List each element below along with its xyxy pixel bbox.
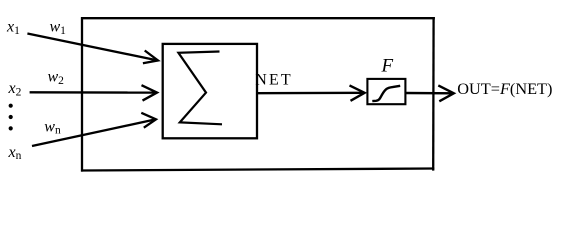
sigmoid curve <box>372 86 400 101</box>
svg-text:F: F <box>381 55 394 76</box>
ellipsis dots <box>9 104 13 131</box>
svg-text:OUT=F(NET): OUT=F(NET) <box>457 79 552 98</box>
NET wire to activation box <box>257 85 365 100</box>
svg-text:NET: NET <box>255 72 293 89</box>
input arrow w1 <box>27 34 158 64</box>
activation function box <box>367 79 405 104</box>
input arrow wn <box>32 113 156 146</box>
output wire <box>405 85 453 101</box>
input arrow w2 <box>30 85 157 100</box>
sigma symbol <box>178 52 222 125</box>
neuron body outer box <box>81 17 435 172</box>
summation unit box <box>163 44 257 138</box>
